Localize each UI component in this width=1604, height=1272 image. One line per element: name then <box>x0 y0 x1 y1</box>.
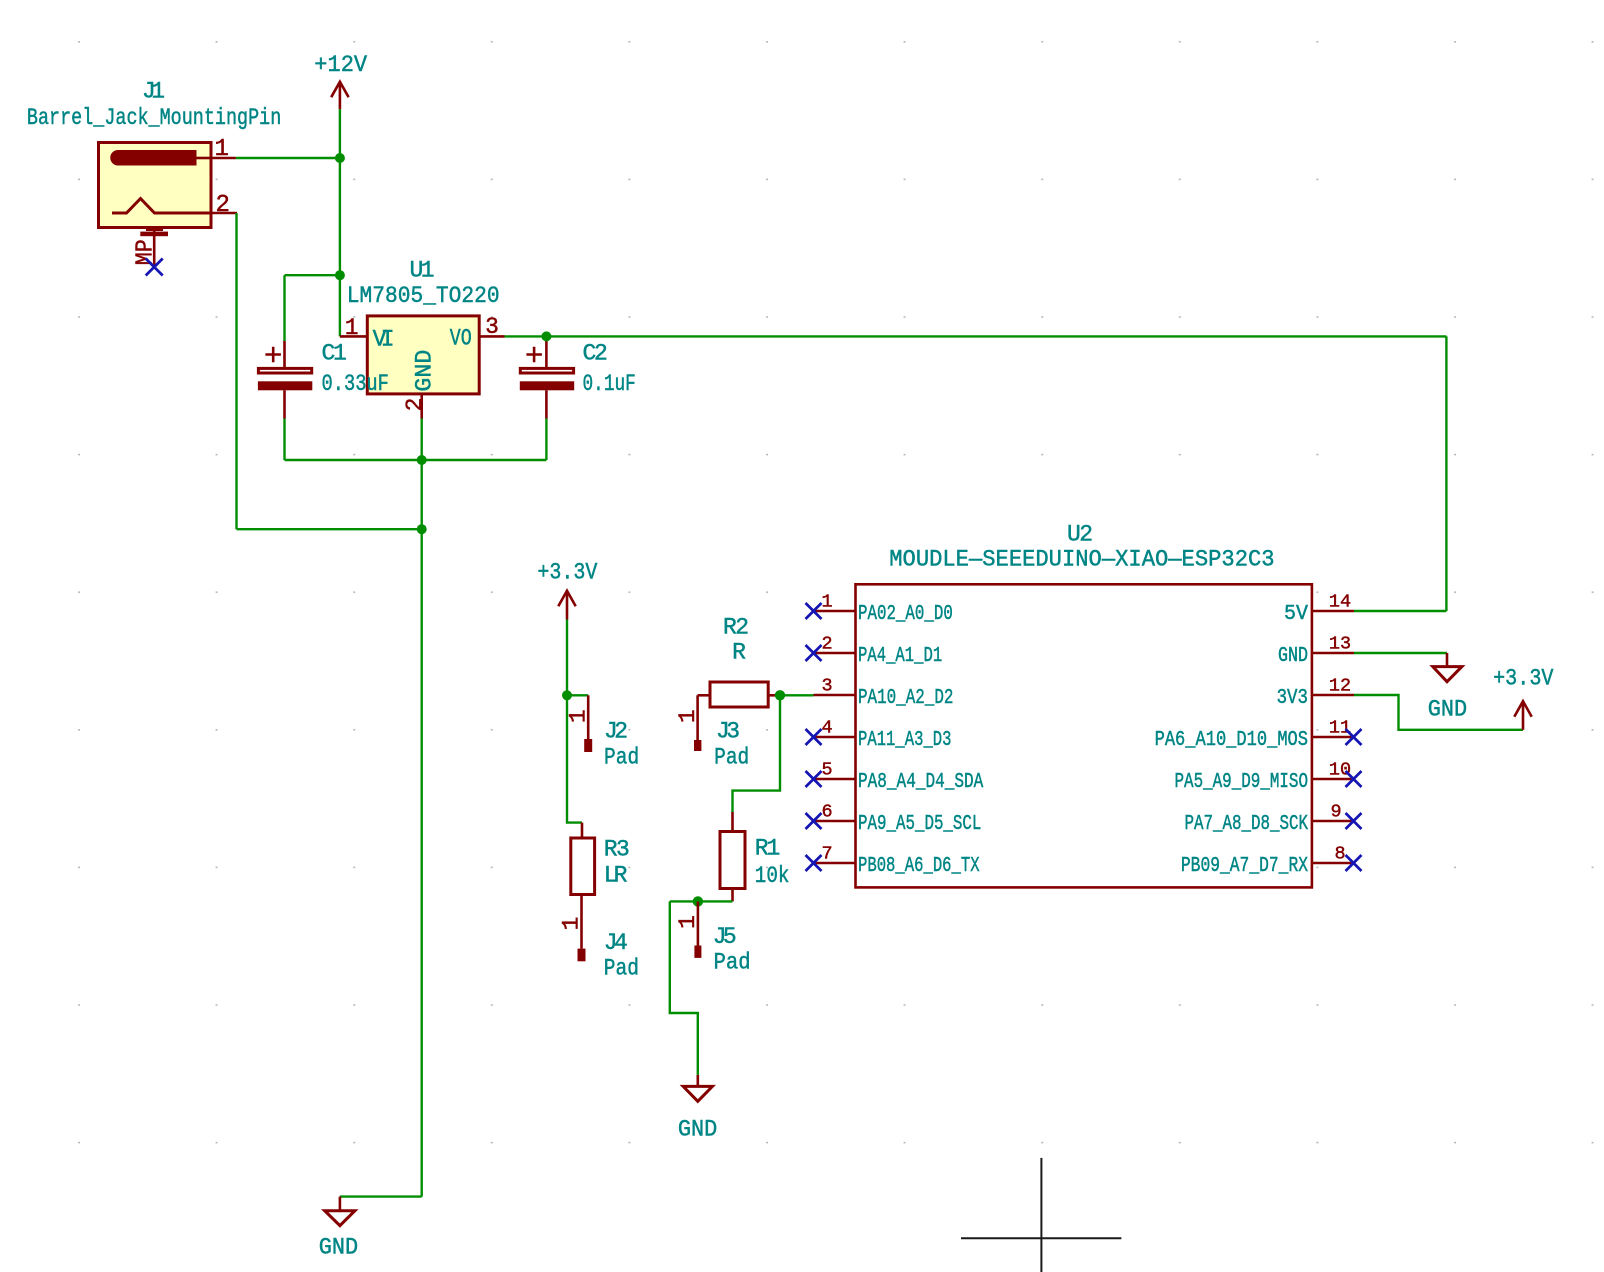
svg-text:+3.3V: +3.3V <box>537 560 597 586</box>
svg-text:5: 5 <box>821 760 832 781</box>
wire 5V right vertical <box>1445 336 1447 611</box>
resistor R3 <box>571 823 595 949</box>
connector J4 pad <box>578 949 586 962</box>
svg-text:2: 2 <box>821 634 832 655</box>
regulator U1 LM7805 body <box>367 316 479 394</box>
svg-text:C1: C1 <box>322 340 347 366</box>
svg-text:PA02_A0_D0: PA02_A0_D0 <box>858 603 953 626</box>
U2 pin 5 PA8_A4_D4_SDA <box>814 778 856 781</box>
U2 pin 6 PA9_A5_D5_SCL <box>814 820 856 823</box>
svg-text:1: 1 <box>675 709 701 723</box>
svg-text:3V3: 3V3 <box>1277 687 1308 710</box>
U1 pin 1 VI <box>340 335 367 338</box>
power symbol +3.3V right <box>1514 701 1531 730</box>
wire U2 3V3 pin 12 to +3.3V <box>1354 695 1523 730</box>
svg-text:1: 1 <box>345 315 359 341</box>
svg-text:J1: J1 <box>142 78 165 104</box>
U2 pin 4 PA11_A3_D3 <box>814 736 856 739</box>
no-connect X on U2 pin 2 <box>806 645 822 661</box>
wire junction down to R1 <box>733 695 781 812</box>
power symbol +12V <box>331 82 348 110</box>
svg-text:U1: U1 <box>410 258 435 284</box>
svg-text:VI: VI <box>373 326 395 352</box>
svg-text:Pad: Pad <box>604 744 639 770</box>
svg-text:10k: 10k <box>755 863 790 889</box>
svg-text:MP: MP <box>133 239 160 265</box>
no-connect X on U2 pin 8 <box>1346 855 1362 871</box>
svg-text:11: 11 <box>1329 718 1351 739</box>
U2 pin 14 5V <box>1312 610 1354 613</box>
wire GND rail C1 to C2 <box>285 459 547 461</box>
J1 mounting pin MP <box>140 228 168 268</box>
U2 pin 2 PA4_A1_D1 <box>814 652 856 655</box>
junction U1 GND at rail <box>417 455 427 465</box>
no-connect X on U2 pin 1 <box>806 603 822 619</box>
svg-text:3: 3 <box>485 314 499 340</box>
svg-text:PA4_A1_D1: PA4_A1_D1 <box>858 645 942 668</box>
U2 pin 8 PB09_A7_D7_RX <box>1312 862 1354 865</box>
no-connect X on U2 pin 6 <box>806 813 822 829</box>
no-connect X on U2 pin 10 <box>1346 771 1362 787</box>
junction C2 at VO wire <box>541 331 551 341</box>
module U2 SEEEDUINO XIAO ESP32C3 body <box>856 584 1312 887</box>
svg-text:6: 6 <box>821 802 832 823</box>
wire GND bottom horizontal <box>340 1195 422 1197</box>
wire C1 bottom <box>283 419 285 461</box>
no-connect X on U2 pin 11 <box>1346 729 1362 745</box>
svg-text:PA10_A2_D2: PA10_A2_D2 <box>858 687 953 710</box>
connector J2 pad <box>584 695 592 752</box>
connector J5 pad <box>694 901 701 958</box>
svg-text:13: 13 <box>1329 634 1351 655</box>
svg-text:3: 3 <box>821 676 832 697</box>
no-connect X on U2 pin 5 <box>806 771 822 787</box>
junction +3.3V node left <box>562 690 572 700</box>
svg-text:4: 4 <box>821 718 832 739</box>
power symbol +3.3V left <box>558 591 575 620</box>
J1 pin 1 <box>211 157 236 160</box>
svg-text:PA8_A4_D4_SDA: PA8_A4_D4_SDA <box>858 771 984 794</box>
svg-text:VO: VO <box>450 326 472 352</box>
svg-text:PB08_A6_D6_TX: PB08_A6_D6_TX <box>858 855 980 878</box>
junction GND trunk <box>417 524 427 534</box>
wire branch to C1 <box>285 274 340 276</box>
svg-text:LM7805_TO220: LM7805_TO220 <box>347 283 500 309</box>
wire +3.3V left down <box>566 620 568 696</box>
no-connect X on U2 pin 7 <box>806 855 822 871</box>
U1 pin 3 VO <box>479 335 504 338</box>
svg-text:GND: GND <box>1278 645 1308 668</box>
wire 5V to U2 pin14 <box>1354 610 1446 612</box>
U2 pin 1 PA02_A0_D0 <box>814 610 856 613</box>
no-connect X on U2 pin 4 <box>806 729 822 745</box>
svg-text:J5: J5 <box>713 924 737 950</box>
svg-text:PA6_A10_D10_MOS: PA6_A10_D10_MOS <box>1155 729 1308 752</box>
svg-text:R3: R3 <box>604 837 630 863</box>
junction R2 to U2 pin3 node <box>775 690 785 700</box>
svg-text:LR: LR <box>604 863 628 889</box>
svg-text:14: 14 <box>1329 592 1351 613</box>
wire down to C1 top <box>283 275 285 341</box>
svg-text:+12V: +12V <box>314 52 367 78</box>
no-connect X on J1 MP <box>146 259 163 276</box>
wire +3.3V down to R3 <box>567 695 582 822</box>
svg-text:J3: J3 <box>716 719 740 745</box>
junction at +12V node <box>335 153 345 163</box>
svg-text:PA11_A3_D3: PA11_A3_D3 <box>858 729 952 752</box>
U2 pin 11 PA6_A10_D10_MOS <box>1312 736 1354 739</box>
svg-text:0.33uF: 0.33uF <box>322 371 389 397</box>
svg-text:R2: R2 <box>723 615 749 641</box>
svg-text:C2: C2 <box>583 340 608 366</box>
ground symbol right <box>1433 653 1462 682</box>
J1 pin 2 <box>211 212 237 215</box>
capacitor C1 <box>258 341 312 419</box>
svg-text:J2: J2 <box>604 719 628 745</box>
svg-text:2: 2 <box>215 192 229 219</box>
svg-text:+3.3V: +3.3V <box>1493 666 1554 692</box>
U2 pin 7 PB08_A6_D6_TX <box>814 862 856 865</box>
wire U1 pin2 to GND rail <box>421 419 423 530</box>
svg-text:0.1uF: 0.1uF <box>583 371 636 397</box>
U2 pin 10 PA5_A9_D9_MISO <box>1312 778 1354 781</box>
svg-text:Pad: Pad <box>714 744 749 770</box>
ground symbol middle <box>683 1075 712 1101</box>
resistor R1 <box>720 812 745 901</box>
svg-text:PA7_A8_D8_SCK: PA7_A8_D8_SCK <box>1185 813 1309 836</box>
svg-text:PB09_A7_D7_RX: PB09_A7_D7_RX <box>1181 855 1308 878</box>
wire J5 node to ground <box>670 901 698 1075</box>
wire R1 bottom to junction <box>670 900 733 902</box>
svg-text:8: 8 <box>1334 844 1345 865</box>
svg-text:2: 2 <box>402 398 428 412</box>
svg-text:Pad: Pad <box>714 950 751 976</box>
svg-text:GND: GND <box>319 1235 358 1261</box>
sheet crosshair marker <box>961 1158 1121 1272</box>
capacitor C2 <box>520 336 574 418</box>
svg-text:R: R <box>732 640 746 666</box>
wire J1 pin2 down <box>235 213 237 529</box>
wire J1 pin1 to +12V junction <box>236 157 340 159</box>
U2 pin 12 3V3 <box>1312 694 1354 697</box>
svg-text:9: 9 <box>1330 802 1341 823</box>
svg-text:GND: GND <box>678 1116 717 1142</box>
svg-text:PA9_A5_D5_SCL: PA9_A5_D5_SCL <box>858 813 981 836</box>
U2 pin 9 PA7_A8_D8_SCK <box>1312 820 1354 823</box>
U1 pin 2 GND <box>420 394 423 419</box>
svg-text:GND: GND <box>1428 697 1467 723</box>
wire U2 GND pin 13 to ground <box>1354 652 1447 654</box>
U2 pin 3 PA10_A2_D2 <box>814 694 856 697</box>
svg-text:1: 1 <box>214 136 228 163</box>
ground symbol bottom left <box>325 1197 355 1226</box>
svg-text:1: 1 <box>675 915 701 929</box>
svg-text:1: 1 <box>565 709 591 723</box>
svg-text:5V: 5V <box>1284 603 1308 626</box>
svg-text:U2: U2 <box>1067 522 1093 548</box>
wire junction to U2 pin 3 <box>780 694 814 696</box>
no-connect X on U2 pin 9 <box>1346 813 1362 829</box>
wire C2 bottom <box>545 419 547 461</box>
junction C1 branch <box>335 270 345 280</box>
svg-text:10: 10 <box>1329 760 1351 781</box>
svg-text:1: 1 <box>559 917 585 931</box>
svg-text:1: 1 <box>821 592 832 613</box>
svg-text:Barrel_Jack_MountingPin: Barrel_Jack_MountingPin <box>27 105 281 131</box>
svg-text:MOUDLE—SEEEDUINO—XIAO—ESP32C3: MOUDLE—SEEEDUINO—XIAO—ESP32C3 <box>889 547 1274 573</box>
svg-text:GND: GND <box>411 350 437 392</box>
svg-text:PA5_A9_D9_MISO: PA5_A9_D9_MISO <box>1175 771 1309 794</box>
svg-text:Pad: Pad <box>604 956 639 982</box>
resistor R2 <box>698 682 780 707</box>
svg-text:R1: R1 <box>755 836 781 862</box>
svg-text:12: 12 <box>1329 676 1351 697</box>
svg-text:7: 7 <box>821 844 832 865</box>
junction J5 node <box>693 896 703 906</box>
connector J1 Barrel_Jack_MountingPin body <box>99 143 212 228</box>
U2 pin 13 GND <box>1312 652 1354 655</box>
wire junction to J2 <box>567 694 588 696</box>
wire U1 VO output <box>505 335 1447 337</box>
wire +12V vertical down to U1 VI <box>339 109 341 336</box>
wire pin2 bottom horizontal to GND trunk <box>237 528 422 530</box>
wire GND trunk down <box>421 529 423 1196</box>
connector J3 pad <box>694 695 701 751</box>
svg-text:J4: J4 <box>604 930 628 956</box>
